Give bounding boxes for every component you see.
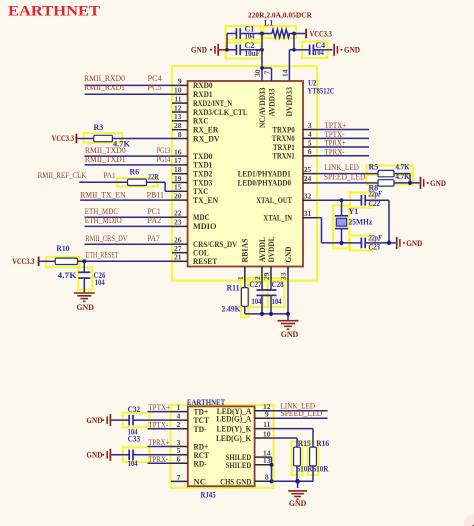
wire RMII_TX_EN to U2 xyxy=(80,199,173,201)
wire pin 24 to R8 xyxy=(317,182,378,184)
svg-text:25MHz: 25MHz xyxy=(349,218,373,227)
pin 9 stub xyxy=(172,84,188,86)
wire pin 10 to R15 xyxy=(271,438,297,447)
capacitor C32 xyxy=(128,405,172,437)
pin 3 stub xyxy=(303,129,317,131)
wire pin 25 to R5 xyxy=(317,173,378,175)
pin 6 stub xyxy=(171,462,188,464)
svg-text:21: 21 xyxy=(174,253,182,262)
svg-text:7: 7 xyxy=(263,71,272,75)
wire TPTX- to RJ45 pin 2 xyxy=(148,428,172,430)
svg-text:1: 1 xyxy=(236,276,245,280)
selection box around U2 xyxy=(172,66,317,281)
pin 4 stub xyxy=(303,137,317,139)
screenshot artifact at bottom-right corner xyxy=(464,514,474,526)
pin 29 bottom stub xyxy=(270,267,272,281)
pin 6 stub xyxy=(303,155,317,157)
svg-text:NC: NC xyxy=(194,477,207,486)
wire C1/C2 left vertical node xyxy=(226,34,228,50)
svg-text:XTAL_OUT: XTAL_OUT xyxy=(256,196,292,205)
svg-text:TXD1: TXD1 xyxy=(193,161,212,170)
svg-text:YT8512C: YT8512C xyxy=(308,86,335,95)
pin 1 stub xyxy=(171,411,188,413)
svg-text:ETH_MDIO: ETH_MDIO xyxy=(85,216,122,225)
selection box around C1 xyxy=(226,26,262,40)
svg-text:R11: R11 xyxy=(227,283,240,292)
ground symbol below RJ45 xyxy=(288,481,307,508)
svg-text:RMII_RXD0: RMII_RXD0 xyxy=(84,74,125,83)
svg-text:TXD2: TXD2 xyxy=(193,170,212,179)
wire TPRX- to RJ45 pin 6 xyxy=(148,462,172,464)
svg-text:PC5: PC5 xyxy=(148,83,162,92)
pin 14 stub xyxy=(255,456,271,458)
junction C27 to rail xyxy=(260,312,264,316)
capacitor C33 xyxy=(128,435,172,468)
pin 16 stub xyxy=(172,155,188,157)
pin 33 bottom stub xyxy=(287,267,289,281)
selection box around R8 xyxy=(367,174,414,185)
svg-text:RMII_TXD1: RMII_TXD1 xyxy=(85,155,126,164)
junction at pin30/pin7 tie xyxy=(260,66,264,70)
svg-text:104: 104 xyxy=(314,48,324,57)
wire TPTX+ to RJ45 pin 1 xyxy=(148,411,172,413)
svg-text:LED(Y)_K: LED(Y)_K xyxy=(217,425,253,434)
svg-text:C28: C28 xyxy=(272,280,284,289)
wire RMII_RXD0 to U2 xyxy=(85,84,173,86)
svg-text:PG13: PG13 xyxy=(157,146,171,155)
svg-text:PC4: PC4 xyxy=(148,74,162,83)
svg-text:TPRX+: TPRX+ xyxy=(325,139,346,148)
resistor R6 xyxy=(128,168,160,186)
pin 8 stub xyxy=(172,138,188,140)
svg-text:30: 30 xyxy=(253,69,262,77)
svg-text:22R: 22R xyxy=(148,173,159,182)
pin 1 bottom stub xyxy=(244,267,246,281)
wire R5 to R8 junction xyxy=(394,174,420,183)
svg-text:GND: GND xyxy=(281,330,299,339)
svg-text:TRXP0: TRXP0 xyxy=(272,125,294,134)
pin 2 bottom stub xyxy=(261,267,263,281)
svg-text:ETH_RESET: ETH_RESET xyxy=(86,250,119,259)
wire connecting pin30 and pin7 nets xyxy=(262,67,272,69)
selection box around R11 xyxy=(241,280,249,318)
svg-text:SPEED_LED: SPEED_LED xyxy=(324,173,366,182)
pin 2 stub xyxy=(171,428,188,430)
svg-text:104: 104 xyxy=(272,297,282,306)
svg-text:C27: C27 xyxy=(250,280,262,289)
svg-text:PA1: PA1 xyxy=(103,171,115,180)
svg-text:14: 14 xyxy=(280,69,289,77)
wire ground rail under chip xyxy=(245,281,288,314)
wire RMII_REF_CLK to R6 xyxy=(79,181,127,183)
svg-text:19: 19 xyxy=(174,174,182,183)
wire chassis ground rail xyxy=(271,480,313,482)
connector RJ45 body xyxy=(188,406,255,486)
svg-text:TRXP1: TRXP1 xyxy=(273,143,295,152)
svg-text:29: 29 xyxy=(262,272,271,280)
svg-text:L1: L1 xyxy=(264,19,273,28)
svg-text:RD-: RD- xyxy=(194,459,208,468)
resistor R10 xyxy=(55,244,77,280)
svg-text:GND: GND xyxy=(406,239,422,248)
svg-text:6: 6 xyxy=(177,455,181,464)
pin 23 stub xyxy=(172,225,188,227)
svg-text:CHS GND: CHS GND xyxy=(220,477,251,486)
wire C22 to C23 right vertical xyxy=(388,200,390,243)
svg-text:Y1: Y1 xyxy=(349,207,359,216)
selection box around C26 xyxy=(78,267,92,289)
wire R6 to pin 15 xyxy=(147,182,173,191)
wire pin 32 to crystal node xyxy=(317,199,341,201)
wire R3 to pin 8 xyxy=(112,138,172,140)
power ground symbol GND (top left) xyxy=(191,44,227,56)
svg-text:AVDD33: AVDD33 xyxy=(267,89,276,117)
selection box around C32 xyxy=(123,413,150,428)
wire pin 31 down and right to crystal bottom xyxy=(317,218,341,243)
selection box around R16 xyxy=(308,442,319,475)
pin 5 stub xyxy=(171,454,188,456)
svg-text:17: 17 xyxy=(174,156,182,165)
wire ETH_MDIO to U2 xyxy=(85,225,173,227)
resistor R16 xyxy=(310,439,330,474)
svg-text:104: 104 xyxy=(245,32,255,41)
ground symbol below chip xyxy=(278,314,299,339)
svg-text:TD-: TD- xyxy=(194,425,208,434)
selection box around R3 xyxy=(84,133,123,143)
svg-text:RX_ER: RX_ER xyxy=(193,126,219,135)
svg-text:23: 23 xyxy=(174,218,182,227)
svg-text:DVDD33: DVDD33 xyxy=(285,87,294,117)
junction chassis rail to GND xyxy=(295,479,300,484)
pin 28 stub xyxy=(172,129,188,131)
selection box around C4 xyxy=(302,42,328,59)
svg-text:12: 12 xyxy=(174,103,182,112)
selection box around C27 xyxy=(248,278,268,307)
svg-text:28: 28 xyxy=(174,121,182,130)
svg-text:R6: R6 xyxy=(129,168,139,177)
svg-text:GND: GND xyxy=(344,45,360,54)
wire SPEED_LED from pin 9 xyxy=(271,417,328,419)
svg-text:RXD2/INT_N: RXD2/INT_N xyxy=(193,99,232,108)
svg-text:4: 4 xyxy=(177,412,181,421)
resistor R15 xyxy=(294,439,313,474)
svg-text:R16: R16 xyxy=(316,439,329,448)
svg-text:4.7K: 4.7K xyxy=(396,163,411,172)
svg-text:220R,2.0A,0.05DCR: 220R,2.0A,0.05DCR xyxy=(248,11,313,20)
junction at L1 output / VCC3.3 xyxy=(292,32,296,36)
svg-text:2.49K: 2.49K xyxy=(222,305,242,314)
svg-text:TPRX-: TPRX- xyxy=(325,147,345,156)
svg-text:TPRX-: TPRX- xyxy=(148,455,168,464)
selection box around C23 xyxy=(350,236,372,251)
power ground symbol GND (crystal) xyxy=(397,237,423,249)
svg-text:RXC: RXC xyxy=(193,117,209,126)
pin 19 stub xyxy=(172,182,188,184)
wire ETH_RESET to pin 21 xyxy=(78,260,173,262)
svg-text:EARTHNET: EARTHNET xyxy=(8,3,100,19)
pin 20 stub xyxy=(172,199,188,201)
selection box around C33 xyxy=(123,447,150,462)
wire net TPTX- from pin 4 xyxy=(317,137,369,139)
pin 11 stub xyxy=(172,102,188,104)
svg-text:TPTX+: TPTX+ xyxy=(325,121,347,130)
svg-text:ETH_MDC: ETH_MDC xyxy=(85,207,118,216)
resistor R5 xyxy=(369,163,411,177)
svg-text:104: 104 xyxy=(95,278,105,287)
svg-text:25: 25 xyxy=(304,165,312,174)
svg-text:510R: 510R xyxy=(313,465,329,474)
svg-text:2: 2 xyxy=(177,420,181,429)
svg-text:GND: GND xyxy=(284,246,293,262)
svg-text:104: 104 xyxy=(128,459,138,468)
pin 30 vertical wire into chip xyxy=(261,68,263,81)
resistor R3 xyxy=(94,123,131,148)
junction at node between C1 and vertical to U2 AVDD pins xyxy=(260,32,264,36)
crystal Y1 25MHz xyxy=(335,200,373,243)
selection box around L1 xyxy=(264,26,297,38)
svg-text:C32: C32 xyxy=(128,405,141,414)
junction at XTAL_OUT node xyxy=(339,198,343,202)
svg-text:10uF: 10uF xyxy=(245,49,261,58)
capacitor C27 xyxy=(250,280,268,314)
svg-text:XTAL_IN: XTAL_IN xyxy=(263,214,292,223)
wire R15 bottom to rail xyxy=(296,466,298,481)
pin 13 stub xyxy=(172,120,188,122)
pin 25 stub xyxy=(303,173,317,175)
svg-text:8: 8 xyxy=(178,130,182,139)
pin 10 stub xyxy=(172,93,188,95)
svg-text:9: 9 xyxy=(265,410,269,419)
svg-text:13: 13 xyxy=(174,112,182,121)
junction rail to GND stub xyxy=(286,312,290,316)
junction shield pin 13 xyxy=(269,463,273,467)
svg-text:18: 18 xyxy=(174,165,182,174)
svg-text:R3: R3 xyxy=(94,123,104,132)
svg-text:TPTX-: TPTX- xyxy=(148,420,168,429)
junction at C26 tap xyxy=(82,259,86,263)
svg-text:RMII_REF_CLK: RMII_REF_CLK xyxy=(38,171,87,180)
svg-text:33: 33 xyxy=(279,272,288,280)
svg-text:11: 11 xyxy=(174,94,181,103)
svg-text:RMII_RXD1: RMII_RXD1 xyxy=(84,83,125,92)
svg-text:R5: R5 xyxy=(369,163,379,172)
svg-text:VCC3.3: VCC3.3 xyxy=(310,30,332,39)
svg-text:5: 5 xyxy=(308,138,312,147)
svg-text:22pF: 22pF xyxy=(368,190,383,199)
wire TPRX+ to RJ45 pin 3 xyxy=(148,446,172,448)
power ground symbol GND (top right) xyxy=(334,44,360,56)
pin 18 stub xyxy=(172,173,188,175)
svg-text:31: 31 xyxy=(304,209,312,218)
wire vertical from C1/C2 node down to AVDD pins xyxy=(261,34,263,69)
svg-text:GND: GND xyxy=(289,499,307,508)
selection box around C2 xyxy=(226,43,262,59)
svg-text:MDIO: MDIO xyxy=(193,222,216,231)
svg-text:C33: C33 xyxy=(128,435,141,444)
svg-text:PB11: PB11 xyxy=(147,191,164,200)
svg-text:9: 9 xyxy=(178,77,182,86)
svg-text:LED(G)_A: LED(G)_A xyxy=(216,414,251,423)
selection box around R10 xyxy=(46,257,80,267)
svg-text:PG14: PG14 xyxy=(157,155,171,164)
selection box around R15 xyxy=(292,442,303,475)
svg-text:RX_DV: RX_DV xyxy=(193,134,220,143)
wire R16 bottom to rail xyxy=(312,466,314,481)
pin 3 stub xyxy=(171,446,188,448)
svg-text:RMII_CRS_DV: RMII_CRS_DV xyxy=(85,234,127,243)
svg-text:RXD3/CLK_CTL: RXD3/CLK_CTL xyxy=(193,108,248,117)
pin 5 stub xyxy=(303,146,317,148)
wire net TPTX+ from pin 3 xyxy=(317,129,369,131)
selection box around R5 xyxy=(367,166,414,176)
svg-text:R10: R10 xyxy=(56,244,69,253)
svg-text:TXD0: TXD0 xyxy=(193,152,212,161)
svg-text:RESET: RESET xyxy=(193,257,218,266)
svg-text:LED0/PHYADD0: LED0/PHYADD0 xyxy=(238,179,292,188)
svg-text:TPRX+: TPRX+ xyxy=(148,438,169,447)
svg-text:32: 32 xyxy=(304,192,312,201)
pin 22 stub xyxy=(172,216,188,218)
svg-text:LINK_LED: LINK_LED xyxy=(324,163,359,172)
pin 24 stub xyxy=(303,182,317,184)
pin 17 stub xyxy=(172,164,188,166)
wire LINK_LED from pin 12 xyxy=(271,410,328,412)
wire net TPRX+ from pin 5 xyxy=(317,146,369,148)
power symbol VCC3.3 (top) xyxy=(306,29,332,39)
capacitor C22 xyxy=(342,190,390,208)
wire RMII_CRS_DV to U2 xyxy=(85,243,173,245)
capacitor C2 xyxy=(227,41,262,58)
pin 15 stub xyxy=(172,190,188,192)
pin 9 stub xyxy=(255,417,271,419)
capacitor C4 xyxy=(294,41,332,57)
wire pin 11 to R16 xyxy=(271,429,313,448)
svg-text:4.7K: 4.7K xyxy=(113,139,131,148)
svg-text:SHILED: SHILED xyxy=(226,461,252,470)
svg-text:15: 15 xyxy=(174,183,182,192)
selection box around RJ45 connector xyxy=(171,405,274,488)
svg-text:LED1/PHYADD1: LED1/PHYADD1 xyxy=(238,169,291,178)
svg-text:20: 20 xyxy=(174,191,182,200)
svg-text:10: 10 xyxy=(174,86,182,95)
svg-text:GND: GND xyxy=(86,451,102,460)
pin 21 stub xyxy=(172,260,188,262)
pin 12 stub xyxy=(255,410,271,412)
wire RMII_TXD0 to U2 xyxy=(85,155,173,157)
wire ETH_MDC to U2 xyxy=(85,216,173,218)
wire from L1 node down to row B xyxy=(293,34,295,50)
svg-text:22pF: 22pF xyxy=(368,233,383,242)
selection box around Y1 xyxy=(333,206,349,249)
pin 7 stub xyxy=(171,480,188,482)
svg-text:C22: C22 xyxy=(369,199,381,208)
svg-text:6: 6 xyxy=(308,147,312,156)
wire net TPRX- from pin 6 xyxy=(317,155,369,157)
svg-text:GND: GND xyxy=(76,303,94,312)
svg-text:7: 7 xyxy=(177,473,181,482)
pin 8 stub xyxy=(255,480,271,482)
power symbol VCC3.3 (at R3) xyxy=(52,134,94,144)
svg-text:22: 22 xyxy=(174,209,182,218)
pin 26 stub xyxy=(172,243,188,245)
pin 27 stub xyxy=(172,252,188,254)
svg-text:RBIAS: RBIAS xyxy=(241,238,250,263)
op IC U2 YT8512C body xyxy=(188,81,303,267)
svg-text:16: 16 xyxy=(174,147,182,156)
svg-text:MDC: MDC xyxy=(193,213,210,222)
pin 13 stub xyxy=(255,464,271,466)
capacitor C26 xyxy=(78,261,105,293)
resistor R11 xyxy=(222,281,249,314)
wire RMII_RXD1 to U2 xyxy=(85,93,173,95)
svg-text:4.7K: 4.7K xyxy=(58,271,78,280)
svg-text:104: 104 xyxy=(252,297,262,306)
svg-text:3: 3 xyxy=(308,121,312,130)
junction at XTAL_IN node xyxy=(339,241,343,245)
svg-text:TX_EN: TX_EN xyxy=(193,196,218,205)
svg-text:NC/AVDD33: NC/AVDD33 xyxy=(258,88,267,129)
svg-text:SPEED_LED: SPEED_LED xyxy=(281,409,323,418)
junction at crystal ground node xyxy=(387,241,391,245)
svg-text:PA2: PA2 xyxy=(147,216,161,225)
inductor L1 xyxy=(258,19,305,38)
wire from C4 node to DVDD33 pin 14 xyxy=(289,50,294,81)
svg-text:RJ45: RJ45 xyxy=(201,491,216,500)
junction at node between C2 and vertical xyxy=(260,48,264,52)
svg-text:TXD3: TXD3 xyxy=(193,178,212,187)
svg-text:RMII_TX_EN: RMII_TX_EN xyxy=(80,191,126,200)
pin 7 vertical wire into chip xyxy=(271,68,273,81)
svg-text:VCC3.3: VCC3.3 xyxy=(12,257,34,266)
capacitor C28 xyxy=(266,280,284,314)
svg-text:C23: C23 xyxy=(369,243,381,252)
svg-text:TXC: TXC xyxy=(193,187,209,196)
pin 10 stub xyxy=(255,437,271,439)
svg-text:GND: GND xyxy=(191,46,207,55)
svg-text:GND: GND xyxy=(430,179,446,188)
svg-text:VCC3.3: VCC3.3 xyxy=(52,134,74,143)
svg-text:TCT: TCT xyxy=(194,416,210,425)
svg-text:10: 10 xyxy=(263,429,271,438)
svg-text:TPTX+: TPTX+ xyxy=(148,403,170,412)
svg-text:R15: R15 xyxy=(298,439,311,448)
svg-text:AVDDL: AVDDL xyxy=(258,237,267,263)
svg-text:11: 11 xyxy=(263,420,270,429)
capacitor C1 xyxy=(227,24,262,40)
pin 11 stub xyxy=(255,428,271,430)
svg-text:GND: GND xyxy=(86,416,102,425)
junction at C1/C2 left node xyxy=(225,48,229,52)
junction of R5/R8 outputs xyxy=(408,181,412,185)
svg-text:DVDDL: DVDDL xyxy=(267,237,276,263)
wire to crystal GND xyxy=(389,242,396,244)
junction at C4 tap xyxy=(292,48,296,52)
svg-text:LED(G)_K: LED(G)_K xyxy=(216,434,252,443)
power ground symbol GND (LED resistors) xyxy=(421,177,447,189)
pin 31 stub xyxy=(303,217,317,219)
svg-text:TRXN1: TRXN1 xyxy=(272,152,294,161)
wire shield pins 14/13 vertical xyxy=(270,457,273,481)
svg-text:RXD0: RXD0 xyxy=(193,81,213,90)
selection box around C28 xyxy=(263,278,285,307)
pin 12 stub xyxy=(172,111,188,113)
svg-text:PC1: PC1 xyxy=(147,207,160,216)
power ground symbol GND (C33) xyxy=(86,449,129,461)
pin 32 stub xyxy=(303,199,317,201)
resistor R8 xyxy=(369,172,411,192)
capacitor C23 xyxy=(342,233,390,251)
wire RMII_TXD1 to U2 xyxy=(85,164,173,166)
